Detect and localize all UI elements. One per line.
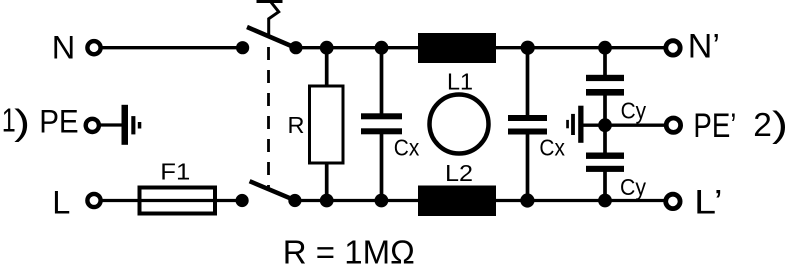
wire Cx2 top stub [526,48,530,118]
junction dot switch L right [288,194,301,207]
capacitor Cy1 bottom plate [586,89,624,96]
terminal L' [666,194,680,208]
svg-text:PE: PE [39,103,78,139]
terminal L [87,194,100,207]
switch actuator zigzag spring [269,2,279,37]
capacitor Cx1 top plate [361,113,402,119]
switch S1a blade (N pole) [247,27,296,48]
svg-text:Cy: Cy [621,98,647,124]
wire resistor branch [325,48,329,201]
junction dot switch N right [289,41,302,54]
wire L line right segment [295,199,667,202]
wire PE right (to PE' terminal) [583,124,667,127]
junction dot PE node [598,118,612,132]
svg-text:L1: L1 [447,68,473,94]
wire Cx1 bottom stub [380,131,384,201]
resistor R body [310,86,344,163]
terminal N' [666,41,680,55]
wire Cy bottom stub [603,169,607,201]
capacitor Cx2 top plate [508,115,547,121]
svg-text:F1: F1 [160,158,190,184]
junction dot Cy1 top [598,41,612,55]
inductor L2 winding [418,186,496,217]
svg-text:): ) [772,103,788,144]
terminal N [87,41,100,54]
earth symbol left (PE) tall bar [122,105,129,145]
capacitor Cx2 bottom plate [508,129,547,135]
svg-text:R = 1MΩ: R = 1MΩ [283,233,415,270]
svg-text:Cy: Cy [620,174,646,200]
junction dot Cx1 top [375,41,389,55]
svg-text:Cx: Cx [539,135,565,161]
junction dot R top [320,41,334,55]
wire Cy top stub [603,48,607,77]
fuse F1 [140,188,216,214]
choke core circle [430,95,489,154]
svg-text:N’: N’ [688,28,720,66]
wire N line left segment [99,46,243,49]
capacitor Cy2 top plate [586,153,624,159]
wire Cx1 top stub [380,48,384,116]
terminal PE' [666,118,680,132]
capacitor Cx1 bottom plate [361,128,402,134]
svg-text:2: 2 [753,107,772,144]
earth symbol right (PE') tall bar [578,106,583,143]
svg-text:Cx: Cx [394,134,420,160]
earth symbol right short bar [566,120,569,128]
capacitor Cy1 top plate [586,75,624,81]
svg-text:L: L [52,184,70,220]
earth symbol left short bar [138,122,142,129]
junction dot Cx1 bottom [375,194,389,208]
switch linkage dashed line [267,47,270,190]
terminal PE [86,119,99,132]
junction dot Cx2 top [521,41,535,55]
svg-text:L’: L’ [694,183,723,221]
capacitor Cy2 bottom plate [586,166,624,172]
svg-text:R: R [288,112,305,138]
wire Cy middle stub [603,93,607,155]
svg-text:L2: L2 [445,160,473,186]
junction dot Cy2 bottom [598,194,612,208]
junction dot switch N left [236,41,249,54]
inductor L1 winding [418,33,496,63]
junction dot switch L left [236,194,249,207]
svg-text:PE’: PE’ [693,107,736,145]
wire Cx2 bottom stub [526,131,530,201]
svg-text:): ) [14,102,30,143]
svg-text:N: N [52,29,75,65]
wire PE left [97,123,123,126]
earth symbol right medium bar [571,114,575,135]
junction dot R bottom [320,194,334,208]
junction dot Cx2 bottom [520,193,534,207]
switch actuator button bar [257,0,283,3]
wire L line left segment [99,199,242,202]
earth symbol left medium bar [131,116,135,134]
switch S1b blade (L pole) [250,181,295,200]
wire N line right segment [296,46,667,49]
